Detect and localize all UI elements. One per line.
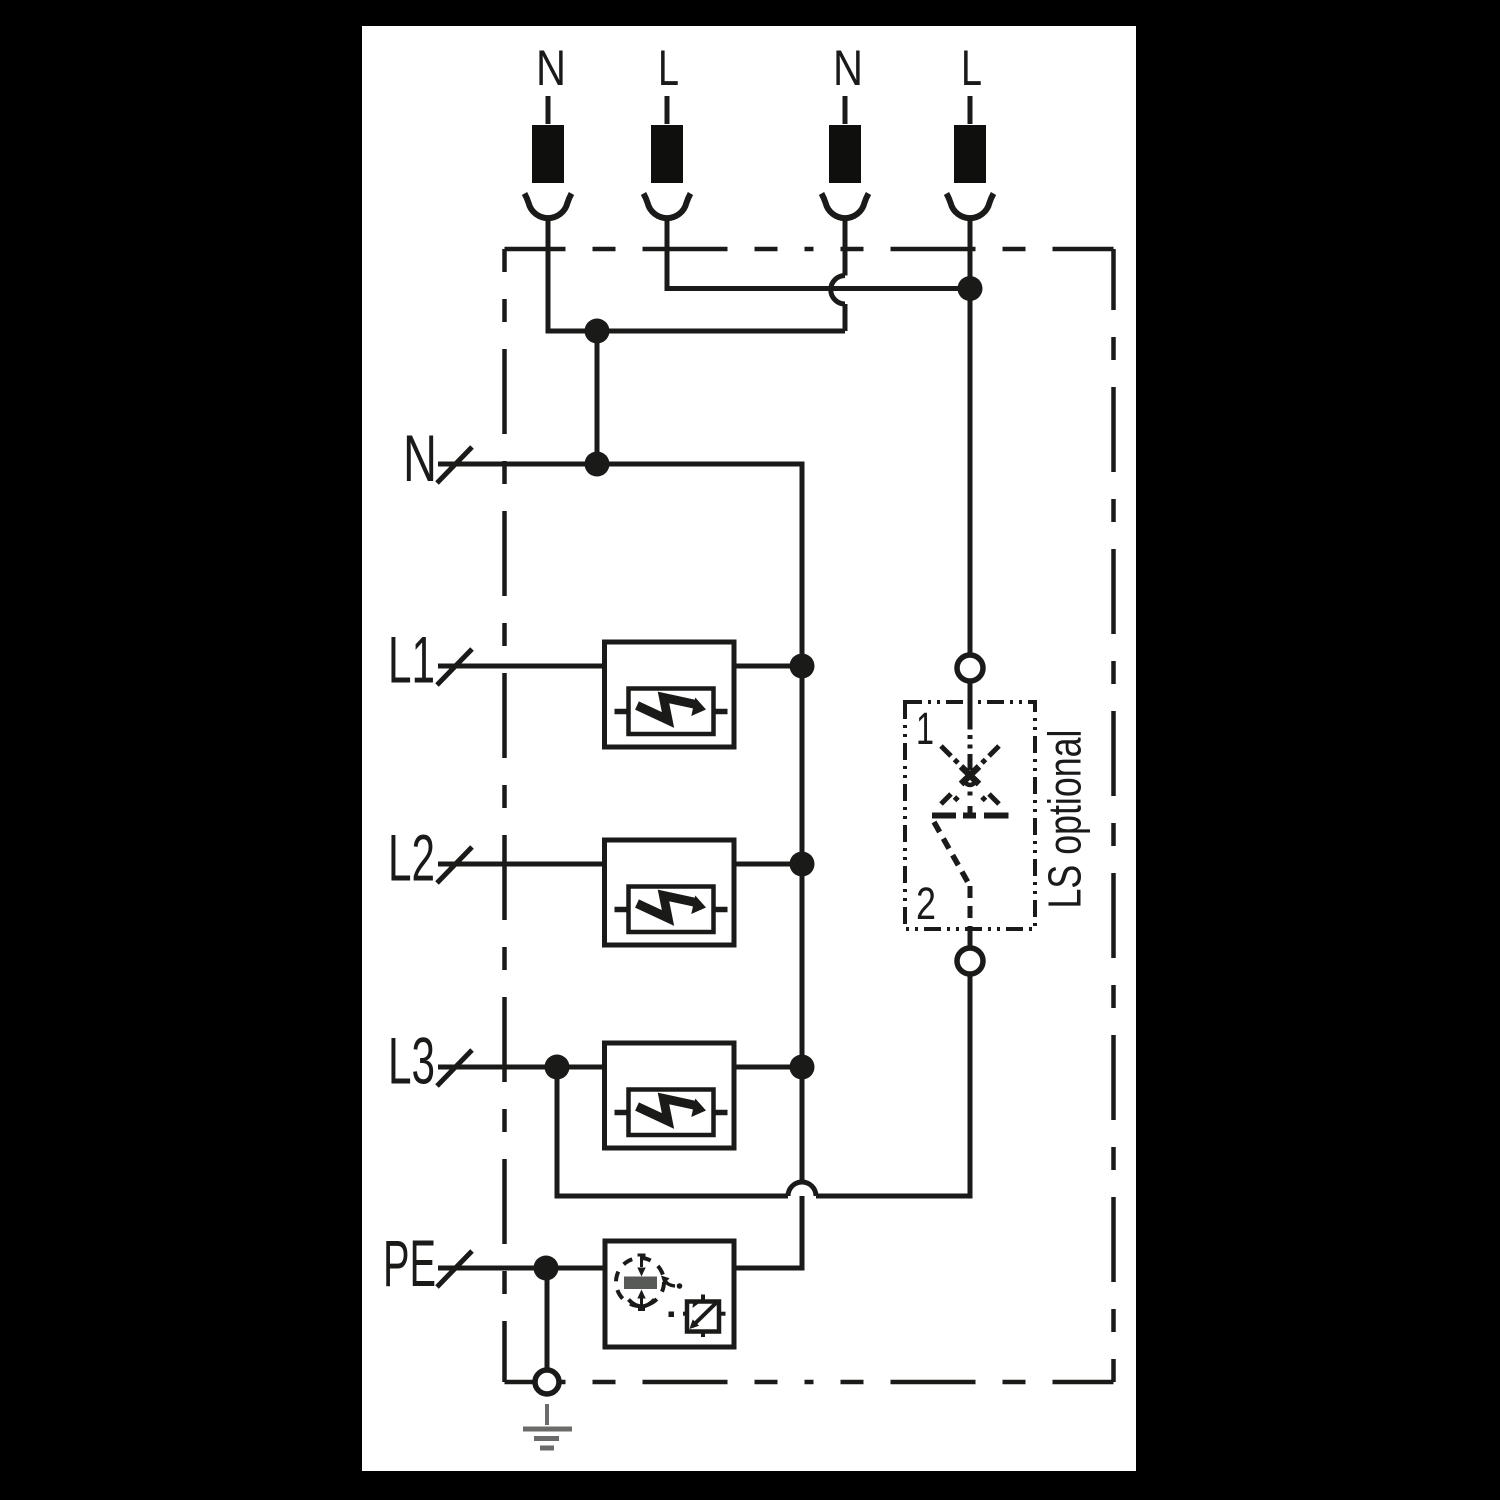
svg-text:L2: L2 (388, 821, 435, 895)
svg-text:1: 1 (916, 703, 934, 754)
surge arrester (varistor) L2 (605, 840, 735, 945)
disconnect indicator square (687, 1302, 719, 1332)
surge arrester (varistor) L1 (605, 642, 735, 747)
device enclosure boundary (dash-dot) (505, 249, 1114, 1382)
node: L1 / N bus (790, 654, 815, 679)
wire T3 down with hop over L tie (843, 216, 848, 276)
wire N drop (595, 331, 600, 464)
surge arrester (varistor) L3 (605, 1043, 735, 1148)
svg-text:L1: L1 (388, 623, 435, 697)
wire T1 down and N tie (T1 to T3) (548, 216, 845, 331)
trigger arrow and dot (661, 1276, 670, 1285)
wire N line into N bus (438, 464, 802, 1182)
spark gap with thermal disconnector (N-PE) (605, 1241, 734, 1347)
bottom up arrow and stem (637, 1290, 645, 1299)
terminal N1 (top, plug pin N) (525, 96, 572, 218)
wire L2 left (438, 862, 605, 867)
wire L3 right (734, 1065, 802, 1070)
terminal slash L1 (437, 649, 472, 685)
svg-text:L3: L3 (388, 1024, 435, 1098)
terminal slash L2 (437, 847, 472, 883)
wire L1 left (438, 664, 605, 669)
breaker internals (968, 681, 973, 730)
terminal slash L3 (437, 1050, 472, 1086)
node: junction L tie / T4 (958, 276, 983, 301)
terminal slash PE (437, 1251, 472, 1287)
node: L3 / LS feed (545, 1055, 570, 1080)
dashed circle of disconnector (616, 1258, 664, 1306)
fuse block (624, 1277, 657, 1290)
wire T4 down to breaker (968, 216, 973, 655)
terminal circle at enclosure bottom (535, 1370, 559, 1394)
terminal L2 (top, socket L) (947, 96, 994, 218)
wire L2 right (734, 862, 802, 867)
node: N line / N drop (585, 452, 610, 477)
terminal slash N (437, 447, 472, 483)
svg-text:PE: PE (383, 1226, 436, 1300)
node: L3 / N bus (790, 1055, 815, 1080)
svg-text:L: L (961, 40, 982, 96)
svg-text:N: N (536, 40, 566, 96)
svg-text:2: 2 (916, 878, 936, 929)
top tick and down arrow (638, 1254, 646, 1257)
LS enclosure dash-dot-dot box (905, 702, 1035, 929)
circuit breaker LS (optional) (905, 655, 1035, 974)
top terminal circle (957, 655, 983, 681)
wire earth drop (545, 1268, 550, 1371)
wire L3 left (438, 1065, 605, 1070)
wire LS feed drop and horizontal (557, 1067, 788, 1196)
svg-text:N: N (833, 40, 863, 96)
terminal L1 (top, plug pin L) (644, 96, 691, 218)
node: PE / earth drop (534, 1256, 559, 1281)
node: junction N tie / N drop (585, 319, 610, 344)
wire PE left (438, 1266, 605, 1271)
svg-text:L: L (658, 40, 679, 96)
wire L1 right (734, 664, 802, 669)
wire N bus below hop, corner to PE arrester (734, 1196, 802, 1268)
svg-text:N: N (403, 421, 437, 495)
svg-text:LS optional: LS optional (1039, 730, 1091, 909)
node: L2 / N bus (790, 852, 815, 877)
wire LS feed horizontal with hop over N bus (788, 1182, 816, 1196)
bottom terminal circle (957, 948, 983, 974)
terminal N2 (top, socket N) (822, 96, 869, 218)
ground (523, 1404, 572, 1448)
wire T2 down and L tie (T2 to T4) (667, 216, 970, 289)
